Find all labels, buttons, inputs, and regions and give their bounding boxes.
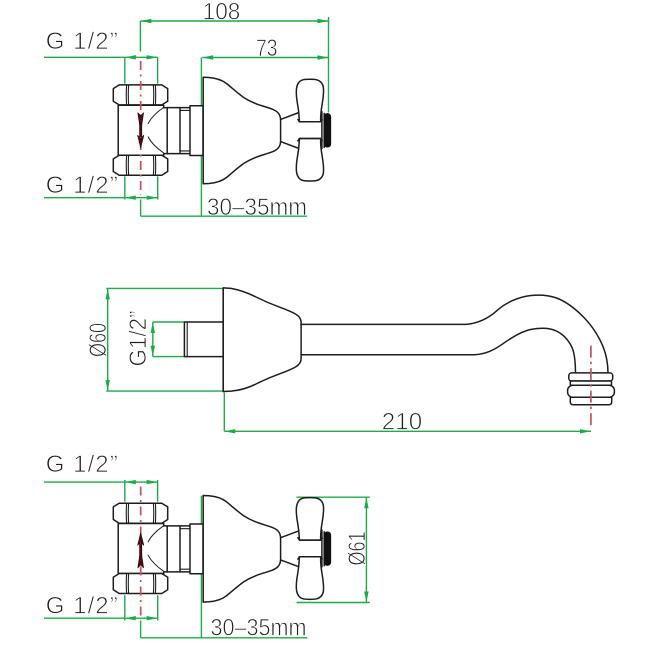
threaded nipple	[184, 322, 223, 357]
red centerline bottom valve	[140, 487, 142, 617]
G1/2 top leader	[44, 56, 158, 58]
dim 108 extension stub at valve centerline	[139, 21, 141, 52]
arrowheads G1/2 bottom	[125, 616, 136, 620]
G1/2 bottom leader	[44, 197, 158, 199]
red centerline top valve	[140, 61, 142, 195]
wall plate line	[222, 288, 224, 392]
arrowheads dim 108	[140, 19, 151, 23]
svg-text:G 1/2”: G 1/2”	[46, 28, 118, 55]
nipple chamfer line	[186, 322, 188, 357]
dia60 extension bottom	[106, 390, 225, 392]
dim 108 line	[140, 20, 328, 22]
svg-text:73: 73	[256, 35, 278, 62]
arrowheads dim 73	[202, 55, 213, 59]
arrowheads dia61	[364, 497, 368, 508]
dia60 dimension line	[107, 288, 109, 391]
wall extension line	[200, 496, 202, 638]
aerator bulge	[568, 385, 615, 397]
svg-text:30–35mm: 30–35mm	[207, 194, 307, 221]
dia60 extension top	[106, 287, 225, 289]
arrowheads G1/2 nipple	[151, 322, 155, 333]
valve assembly top	[113, 77, 330, 184]
210 dim line	[224, 430, 591, 432]
G1/2 bottom leader	[44, 617, 158, 619]
30-35 riser at valve centerline	[140, 200, 142, 217]
svg-text:Ø60: Ø60	[85, 323, 112, 357]
arrowheads G1/2 bottom	[125, 196, 136, 200]
dim 73 line	[202, 57, 328, 59]
aerator band 2	[570, 381, 611, 385]
G1/2 top extension lines	[125, 480, 158, 502]
dia61 dim line	[365, 497, 367, 602]
svg-text:108: 108	[203, 0, 241, 26]
spout tube outer edge	[301, 295, 608, 373]
flow arrow (up)	[138, 533, 144, 568]
svg-text:G 1/2”: G 1/2”	[46, 451, 118, 478]
valve assembly bottom	[113, 496, 330, 603]
svg-text:G 1/2”: G 1/2”	[46, 172, 118, 199]
svg-text:30–35mm: 30–35mm	[211, 615, 307, 642]
G1/2 nipple dim line	[152, 322, 154, 357]
svg-text:210: 210	[382, 409, 422, 436]
dia61 extension top	[297, 496, 370, 498]
G1/2 bottom extension lines	[125, 176, 158, 199]
arrowheads 210	[224, 429, 235, 433]
arrowheads dia60	[106, 288, 110, 299]
G1/2 top leader	[44, 481, 158, 483]
spout tube inner edge	[301, 328, 575, 373]
30-35 baseline	[141, 637, 308, 639]
dia61 extension bottom	[297, 602, 370, 604]
red centerline spout outlet	[590, 346, 592, 428]
arrowheads G1/2 top	[125, 55, 136, 59]
svg-text:G1/2”: G1/2”	[125, 311, 152, 367]
G1/2 nipple extension bottom	[153, 356, 184, 358]
G1/2 bottom extension lines	[125, 595, 158, 620]
aerator band 1	[569, 373, 613, 381]
aerator skirt	[570, 397, 611, 404]
svg-text:Ø61: Ø61	[344, 532, 371, 566]
wall extension line (73 + 30-35)	[200, 58, 202, 217]
svg-text:G 1/2”: G 1/2”	[46, 593, 118, 620]
210 left extension	[223, 393, 225, 432]
G1/2 nipple extension top	[153, 321, 184, 323]
spout escutcheon bell	[223, 288, 301, 392]
dim 108 / 73 extension line at handle cap	[328, 17, 330, 113]
30-35 riser at valve centerline	[140, 621, 142, 638]
arrowheads G1/2 top	[125, 480, 136, 484]
30-35 baseline	[141, 215, 307, 217]
flow arrow (down)	[138, 113, 144, 148]
G1/2 top extension lines	[125, 57, 158, 83]
